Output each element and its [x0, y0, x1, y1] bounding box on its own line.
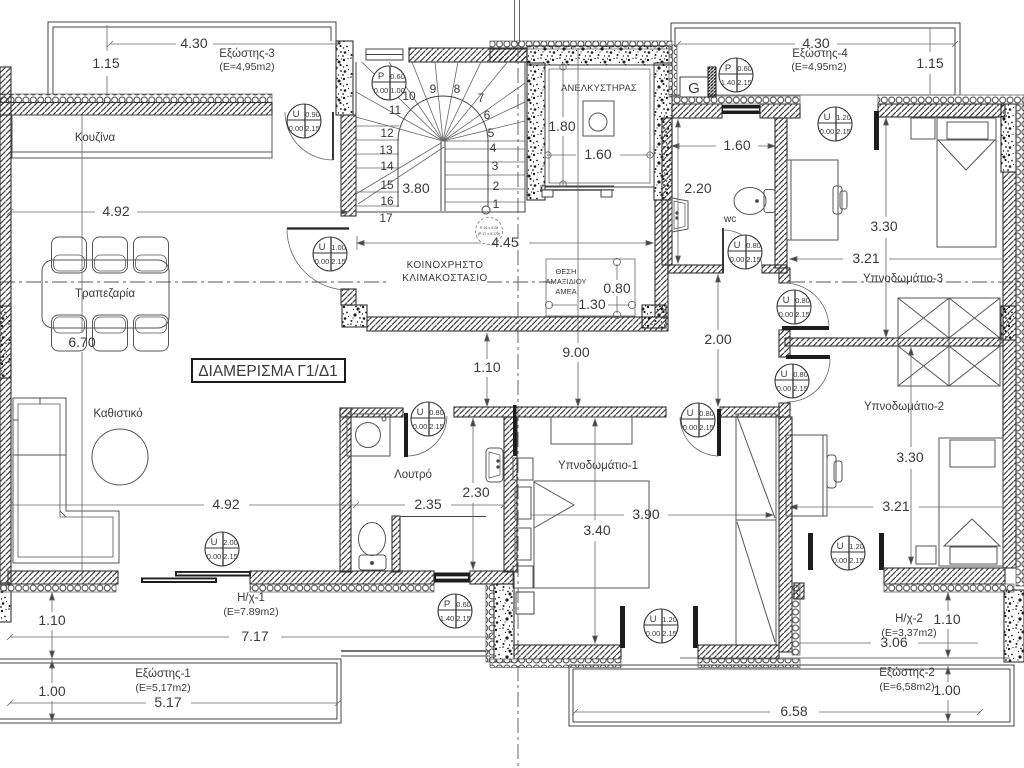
hatched wall left of elevator: [490, 49, 527, 62]
svg-text:H/χ-2: H/χ-2: [895, 613, 923, 625]
svg-text:0.60: 0.60: [390, 72, 405, 81]
lobby right hatched wall: [655, 200, 668, 317]
svg-text:Εξώστης-3: Εξώστης-3: [219, 48, 275, 60]
door marker U 0.80 0.00/2.15 wc door: [728, 235, 762, 269]
svg-text:U: U: [781, 369, 788, 380]
svg-text:ΘΕΣΗ: ΘΕΣΗ: [556, 267, 577, 276]
bed-2: [939, 438, 1003, 566]
dim 1.30 amea: [545, 301, 635, 308]
svg-text:3.30: 3.30: [896, 449, 923, 465]
right insulation circle column: [1016, 104, 1024, 586]
lobby concrete square column: [642, 305, 666, 328]
dim 7.17: [7, 634, 493, 640]
svg-text:Υπνοδωμάτιο-1: Υπνοδωμάτιο-1: [558, 460, 638, 472]
svg-text:(E=4,95m2): (E=4,95m2): [219, 61, 274, 73]
closet double with X: [898, 298, 1000, 386]
stair right straight treads: [445, 149, 525, 202]
svg-text:4.92: 4.92: [102, 203, 129, 219]
svg-text:1.40: 1.40: [440, 614, 455, 623]
svg-text:U: U: [734, 240, 741, 251]
svg-text:H/χ-1: H/χ-1: [237, 592, 265, 604]
loutro right hatched wall: [504, 417, 517, 572]
dim 3.40 bed1: [593, 419, 598, 643]
loutro left hatched wall: [340, 408, 351, 572]
svg-text:0.90: 0.90: [305, 110, 320, 119]
dining table: [42, 260, 169, 328]
svg-text:2.00: 2.00: [704, 331, 731, 347]
bedroom-2 south wall: [884, 568, 1005, 584]
loutro top wall: [340, 408, 403, 417]
dim 3.90 bed1: [532, 513, 773, 518]
dim 6.58: [572, 709, 983, 715]
kitchen counter: [12, 115, 272, 158]
wc toilet: [734, 188, 775, 215]
svg-text:3.40: 3.40: [583, 522, 610, 538]
shelf box corner bedroom-1: [516, 592, 534, 614]
bed-1: [534, 481, 649, 588]
stair outline: [356, 62, 525, 212]
svg-text:0.00: 0.00: [777, 384, 792, 393]
svg-text:ΔΙΑΜΕΡΙΣΜΑ Γ1/Δ1: ΔΙΑΜΕΡΙΣΜΑ Γ1/Δ1: [198, 363, 338, 380]
svg-text:0.00: 0.00: [833, 556, 848, 565]
svg-text:1.10: 1.10: [933, 611, 960, 627]
svg-text:7: 7: [478, 91, 485, 105]
left exterior hatched wall: [0, 67, 11, 583]
dim 1.60 elevator: [545, 152, 653, 158]
dim 4.30 balcony-3: [107, 41, 341, 47]
bedroom-3 door leaf and arc: [782, 326, 829, 330]
svg-text:5.17: 5.17: [154, 694, 181, 710]
svg-text:1.30: 1.30: [578, 296, 605, 312]
svg-text:1: 1: [493, 197, 500, 211]
svg-text:(E=7.89m2): (E=7.89m2): [223, 606, 278, 618]
door marker U 0.80 0.00/2.15 bedroom-3 door: [777, 290, 811, 324]
svg-text:4.45: 4.45: [491, 234, 518, 250]
svg-text:13: 13: [379, 143, 393, 157]
concrete column left wall b: [0, 585, 11, 622]
nightstand-3: [911, 118, 935, 139]
balcony door post bedroom-3: [874, 111, 879, 150]
right concrete wall top: [1001, 104, 1016, 172]
svg-text:1.00: 1.00: [331, 243, 346, 252]
svg-text:2.15: 2.15: [746, 255, 761, 264]
svg-text:1.00: 1.00: [38, 683, 65, 699]
svg-text:ΑΜΑΞΙΔΙΟΥ: ΑΜΑΞΙΔΙΟΥ: [546, 277, 587, 286]
stair left hatched wall: [341, 115, 356, 216]
stair flight diagonal: [356, 143, 444, 204]
svg-text:0.80: 0.80: [699, 409, 714, 418]
kitchen exterior hatched wall: [0, 103, 272, 116]
svg-text:2.15: 2.15: [795, 310, 810, 319]
dim 4.45: [357, 236, 653, 250]
balcony Exostis-3 top-left border: [48, 22, 336, 94]
desk bedroom-3: [787, 160, 847, 240]
svg-text:ΚΛΙΜΑΚΟΣΤΑΣΙΟ: ΚΛΙΜΑΚΟΣΤΑΣΙΟ: [402, 273, 487, 284]
dim 3.30 bed3: [884, 117, 889, 337]
wc door leaf and arc: [722, 228, 724, 273]
svg-text:4: 4: [490, 141, 497, 155]
svg-text:ΑΝΕΛΚΥΣΤΗΡΑΣ: ΑΝΕΛΚΥΣΤΗΡΑΣ: [561, 83, 637, 93]
dim 3.21 bed2: [790, 505, 1002, 510]
stair top window: [366, 49, 403, 60]
vertical axis line: [515, 0, 520, 768]
svg-text:Εξώστης-2: Εξώστης-2: [879, 667, 935, 679]
svg-text:3.21: 3.21: [852, 250, 879, 266]
svg-text:wc: wc: [723, 214, 736, 225]
wheelchair space box: [546, 259, 635, 316]
svg-text:1.10: 1.10: [473, 359, 500, 375]
svg-text:0.00: 0.00: [207, 552, 222, 561]
bedroom-1 south wall right: [698, 645, 779, 659]
dim 1.80 elevator: [560, 64, 566, 187]
door marker U 0.90 0.00/2.15 kitchen door: [287, 104, 321, 138]
bedroom-2 south door posts: [808, 533, 813, 570]
svg-text:1.00: 1.00: [933, 682, 960, 698]
svg-text:0.80: 0.80: [603, 280, 630, 296]
door marker U 2.00 0.00/2.15 living sliding door: [205, 532, 239, 566]
svg-text:9: 9: [430, 82, 437, 96]
svg-text:0.80: 0.80: [429, 408, 444, 417]
svg-text:Υπνοδωμάτιο-3: Υπνοδωμάτιο-3: [863, 273, 943, 285]
round side table: [92, 429, 148, 485]
bedroom-1 door leaf and arc: [717, 409, 721, 456]
svg-text:0.00: 0.00: [315, 257, 330, 266]
svg-text:2.15: 2.15: [836, 127, 851, 136]
entry door arc: [287, 229, 348, 290]
svg-text:6.70: 6.70: [68, 334, 95, 350]
dim 4.92 + 2.35 lower: [7, 502, 507, 508]
svg-text:2.20: 2.20: [684, 180, 711, 196]
svg-text:4.92: 4.92: [212, 496, 239, 512]
south wall piece right of window: [470, 571, 514, 584]
washing machine: [347, 414, 390, 456]
stair left straight treads: [356, 126, 399, 206]
south wall living room: [8, 571, 118, 584]
svg-text:2.15: 2.15: [223, 552, 238, 561]
svg-text:0.00: 0.00: [730, 255, 745, 264]
wc basin: [672, 198, 688, 232]
svg-text:11: 11: [389, 103, 402, 117]
svg-text:0.00: 0.00: [413, 422, 428, 431]
svg-text:15: 15: [380, 178, 394, 192]
dining chair bottom 2: [93, 315, 128, 351]
stair eye arc: [398, 96, 488, 207]
dim 1.15 balcony-3: [106, 25, 108, 94]
svg-text:U: U: [783, 295, 790, 306]
window hx1: [434, 573, 470, 583]
svg-text:U: U: [319, 242, 326, 253]
dim 1.10 right: [946, 592, 951, 657]
dim 1.10 left: [50, 592, 55, 658]
wc left hatched wall: [662, 118, 672, 265]
svg-text:12: 12: [380, 126, 394, 140]
svg-text:0.80: 0.80: [795, 296, 810, 305]
insulation row above bedroom-3: [878, 95, 1024, 104]
svg-text:0.80: 0.80: [746, 241, 761, 250]
svg-text:6: 6: [484, 108, 491, 122]
L-shaped sofa: [13, 398, 119, 563]
dim 5.17: [7, 700, 341, 706]
svg-text:2.00: 2.00: [223, 538, 238, 547]
dim 2.20 wc: [676, 120, 681, 263]
bedroom-1 south door posts: [620, 606, 625, 648]
svg-text:Εξώστης-4: Εξώστης-4: [792, 48, 848, 60]
svg-text:(E=5,17m2): (E=5,17m2): [135, 682, 190, 694]
door marker P 0.60 1.40/2.15 lobby window: [719, 58, 753, 92]
concrete column right of kitchen door: [336, 41, 353, 115]
horizontal axis line: [0, 281, 1024, 283]
nightstand-2: [916, 546, 936, 564]
dim 2.00 wc corridor: [716, 274, 721, 406]
svg-text:1.60: 1.60: [584, 146, 611, 162]
elevator machine box: [583, 101, 614, 136]
shower partition: [392, 516, 400, 572]
insulation row above wc wall: [672, 96, 800, 104]
dining chair top 2: [93, 237, 128, 273]
door marker P 0.60 0.00/1.00 stair window: [372, 66, 406, 100]
svg-text:U: U: [824, 112, 831, 123]
svg-text:2.15: 2.15: [305, 124, 320, 133]
svg-text:3.90: 3.90: [632, 506, 659, 522]
svg-text:U: U: [687, 408, 694, 419]
svg-text:U: U: [293, 109, 300, 120]
wardrobe bedroom-1: [736, 414, 776, 645]
svg-text:2.15: 2.15: [737, 78, 752, 87]
elevator door sill: [540, 186, 614, 197]
svg-text:0.00: 0.00: [646, 629, 661, 638]
dim 4.92 upper: [7, 209, 348, 215]
svg-text:0.80: 0.80: [793, 370, 808, 379]
kitchen door leaf and arc: [285, 112, 333, 160]
lobby bottom hatched wall: [367, 317, 668, 331]
svg-text:Κουζίνα: Κουζίνα: [75, 132, 116, 144]
door marker U 0.80 0.00/2.15 loutro door: [411, 402, 445, 436]
stair newel double line: [441, 141, 445, 211]
svg-text:(E=6,58m2): (E=6,58m2): [879, 681, 934, 693]
svg-text:1.15: 1.15: [916, 55, 943, 71]
svg-text:0.60: 0.60: [456, 600, 471, 609]
dim 1.15 balcony-4: [929, 28, 931, 94]
svg-text:2.15: 2.15: [662, 629, 677, 638]
svg-text:0.60: 0.60: [737, 64, 752, 73]
right exterior hatched wall: [1003, 172, 1016, 568]
balcony Exostis-1 bottom-left border: [0, 651, 490, 723]
svg-text:1.20: 1.20: [836, 113, 851, 122]
door jamb wall pieces x779: [779, 268, 790, 283]
south wall loutro: [250, 571, 434, 584]
dim 4.30 balcony-4: [675, 41, 958, 47]
svg-text:1.40: 1.40: [721, 78, 736, 87]
svg-text:4.30: 4.30: [180, 35, 207, 51]
dim 0.80 amea: [613, 258, 620, 318]
door marker U 1.20 0.00/2.15 bedroom-2 south door: [831, 536, 865, 570]
door marker P 0.60 1.40/2.15 hx1 window: [438, 594, 472, 628]
svg-text:3: 3: [492, 159, 499, 173]
wc top wall with window: [672, 104, 722, 118]
svg-text:1.80: 1.80: [548, 118, 575, 134]
concrete column south: [486, 584, 494, 662]
svg-text:(E=3,37m2): (E=3,37m2): [881, 627, 936, 639]
wc bottom wall pieces: [668, 265, 723, 273]
dim 3.30 bed2: [909, 347, 914, 564]
svg-text:1.60: 1.60: [723, 137, 750, 153]
svg-text:ΑΜΕΑ: ΑΜΕΑ: [555, 287, 576, 296]
dining chair top 3: [134, 237, 169, 273]
bedroom-2 door leaf and arc: [786, 355, 830, 359]
door marker U 0.80 0.00/2.15 bedroom-1 door: [681, 403, 715, 437]
wall insulation row above kitchen: [0, 94, 272, 103]
svg-text:3.30: 3.30: [870, 218, 897, 234]
svg-text:0.00: 0.00: [683, 423, 698, 432]
dim 9.00 vertical: [576, 48, 581, 406]
svg-text:Καθιστικό: Καθιστικό: [93, 408, 142, 420]
loutro door leaf and arc: [404, 413, 408, 457]
dim 3.21 bed3: [790, 257, 1002, 262]
svg-text:2.15: 2.15: [456, 614, 471, 623]
dim 3.06: [800, 642, 978, 644]
bedroom-1 south wall left: [514, 645, 621, 659]
svg-text:9.00: 9.00: [562, 344, 589, 360]
svg-text:0.00: 0.00: [779, 310, 794, 319]
stair start marker circle: [482, 206, 490, 214]
svg-text:3.21: 3.21: [882, 498, 909, 514]
bedroom-1 dresser under wall: [551, 417, 632, 444]
svg-text:U: U: [650, 614, 657, 625]
svg-text:Λουτρό: Λουτρό: [394, 469, 432, 481]
svg-text:6.58: 6.58: [780, 703, 807, 719]
svg-text:P: P: [378, 71, 384, 82]
G dark column: [708, 67, 716, 97]
svg-text:7.17: 7.17: [241, 628, 268, 644]
svg-text:2.15: 2.15: [849, 556, 864, 565]
entry concrete square: [342, 305, 367, 327]
dim 6.70 vertical: [81, 115, 83, 580]
elevator car: [545, 65, 654, 187]
svg-text:U: U: [417, 407, 424, 418]
svg-text:P: P: [444, 599, 450, 610]
dim 1.10 corridor: [485, 333, 490, 406]
svg-text:(E=4,95m2): (E=4,95m2): [791, 61, 846, 73]
balcony Exostis-4 top-right border: [671, 23, 960, 95]
svg-text:2.15: 2.15: [331, 257, 346, 266]
svg-text:8: 8: [454, 82, 461, 96]
G meter box: [680, 77, 708, 97]
svg-text:16: 16: [380, 194, 394, 208]
door marker U 1.20 0.00/2.15 bedroom-3 balcony door: [818, 107, 852, 141]
svg-text:U: U: [837, 541, 844, 552]
door marker U 0.80 0.00/2.15 bedroom-2 door: [775, 364, 809, 398]
loutro toilet: [359, 523, 387, 571]
svg-text:ΚΟΙΝΟΧΡΗΣΤΟ: ΚΟΙΝΟΧΡΗΣΤΟ: [407, 260, 484, 271]
dining chair top 1: [52, 237, 87, 273]
svg-text:Π:16 x 0.28: Π:16 x 0.28: [480, 226, 498, 230]
svg-text:17: 17: [379, 211, 393, 225]
svg-text:2.35: 2.35: [414, 496, 441, 512]
steps wall hx2: [792, 583, 800, 655]
wc right hatched wall: [775, 118, 787, 268]
svg-text:14: 14: [380, 159, 394, 173]
right concrete block closet level: [1001, 306, 1016, 340]
svg-text:P: P: [725, 63, 731, 74]
svg-text:2.15: 2.15: [793, 384, 808, 393]
bed-1 headboard cabinets: [513, 458, 533, 588]
svg-text:5: 5: [488, 126, 495, 140]
stair top hatched wall: [409, 48, 527, 62]
dim 1.00 left: [50, 660, 55, 722]
dining chair bottom 1: [52, 315, 87, 351]
svg-text:3.80: 3.80: [402, 180, 429, 196]
svg-text:0.00: 0.00: [374, 86, 389, 95]
balcony Exostis-2 bottom-right border: [569, 658, 1014, 726]
svg-text:0.00: 0.00: [289, 124, 304, 133]
right concrete edge bottom: [1004, 590, 1024, 662]
desk bedroom-2: [786, 435, 842, 516]
door marker U 1.20 0.00/2.15 bedroom-1 south door: [644, 609, 678, 643]
balcony-4 insulation column: [669, 45, 677, 97]
svg-text:0.00: 0.00: [820, 127, 835, 136]
wardrobe right hatched wall: [779, 417, 792, 652]
door marker U 1.00 0.00/2.15 entry door: [313, 237, 347, 271]
svg-text:1.00: 1.00: [390, 86, 405, 95]
insulation row top of building: [490, 41, 672, 49]
svg-text:1.10: 1.10: [38, 612, 65, 628]
sliding door living room: [175, 571, 251, 577]
svg-text:U: U: [211, 537, 218, 548]
entry door leaf: [287, 227, 349, 229]
dim 2.30 loutro: [471, 418, 476, 570]
svg-text:1.20: 1.20: [662, 615, 677, 624]
bed-3: [937, 118, 996, 247]
dim 1.00 right: [946, 666, 951, 721]
svg-text:Εξώστης-1: Εξώστης-1: [135, 668, 191, 680]
svg-text:1.20: 1.20: [849, 542, 864, 551]
entry wall piece below stairs: [341, 289, 356, 305]
bedroom-3 top hatched wall: [878, 104, 1005, 117]
bedroom-1 left wall dark bar: [513, 405, 517, 456]
stair note dashed circle: [476, 218, 503, 245]
svg-text:Τραπεζαρία: Τραπεζαρία: [75, 288, 135, 300]
svg-text:2: 2: [493, 179, 500, 193]
concrete column left wall a: [0, 306, 11, 378]
svg-text:Υπνοδωμάτιο-2: Υπνοδωμάτιο-2: [864, 401, 944, 413]
svg-text:1.15: 1.15: [92, 55, 119, 71]
svg-text:2.30: 2.30: [462, 484, 489, 500]
title box apartment G1/D1: [192, 359, 345, 382]
dining chair bottom 3: [134, 315, 169, 351]
svg-text:2.15: 2.15: [429, 422, 444, 431]
elevator shaft concrete walls: [527, 46, 672, 65]
loutro basin: [486, 448, 503, 482]
stair tread numbers: [379, 82, 499, 225]
dim 1.60 wc: [672, 144, 775, 149]
partition wall bed3/bed2: [785, 338, 1003, 346]
svg-text:G: G: [688, 80, 700, 97]
svg-text:2.15: 2.15: [699, 423, 714, 432]
